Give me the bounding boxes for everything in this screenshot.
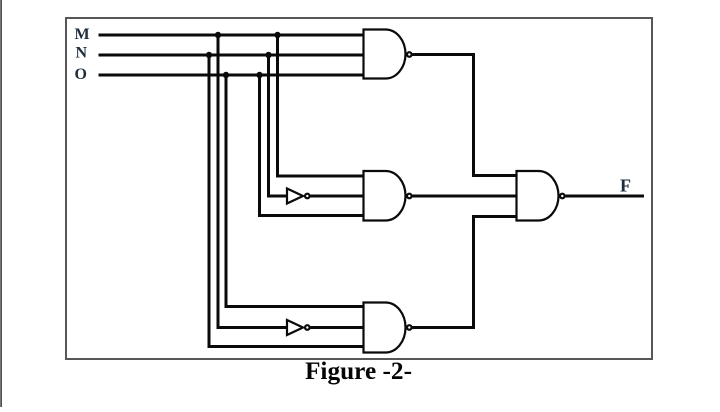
wire M to U2 top input bbox=[278, 35, 364, 176]
svg-text:Figure -2-: Figure -2- bbox=[305, 357, 412, 385]
inverter U6 bubble bbox=[305, 325, 310, 330]
inverter U5 bubble bbox=[305, 194, 310, 199]
wire N to U3 bottom input bbox=[209, 55, 364, 347]
wire O to U3 top input bbox=[226, 75, 364, 307]
inverter U6 triangle bbox=[287, 320, 303, 335]
wire U4 output to F bbox=[566, 195, 645, 198]
wire M rail bbox=[99, 34, 364, 37]
wire U2 output to U4 middle input bbox=[413, 195, 517, 198]
svg-text:M: M bbox=[75, 26, 90, 43]
node O-A junction bbox=[223, 72, 229, 78]
wire M to inverter U6 input bbox=[218, 35, 288, 328]
schematic frame bbox=[66, 18, 652, 359]
inverter U5 triangle bbox=[287, 189, 303, 204]
nand gate U4 bubble bbox=[560, 194, 565, 199]
svg-text:O: O bbox=[75, 66, 87, 83]
wire O rail bbox=[99, 74, 364, 77]
node O-B junction bbox=[256, 72, 262, 78]
nand gate U2 bubble bbox=[407, 194, 412, 199]
wire N rail bbox=[99, 54, 364, 57]
left page rule bbox=[0, 0, 2, 407]
wire U1 output to U4 top input bbox=[413, 55, 517, 176]
nand gate U4 body bbox=[517, 171, 559, 221]
nand gate U2 body bbox=[364, 171, 406, 221]
wire U3 output to U4 bottom input bbox=[413, 217, 517, 328]
wire inverter U5 output to U2 bbox=[311, 195, 364, 198]
nand gate U1 body bbox=[364, 30, 406, 79]
nand gate U3 body bbox=[364, 303, 406, 353]
wire O to U2 bottom input bbox=[260, 75, 364, 216]
svg-text:N: N bbox=[76, 45, 88, 62]
node M-A junction bbox=[215, 32, 221, 38]
svg-text:F: F bbox=[620, 176, 631, 196]
nand gate U3 bubble bbox=[407, 325, 412, 330]
nand gate U1 bubble bbox=[407, 52, 412, 57]
wire inverter U6 output to U3 bbox=[311, 326, 364, 329]
node M-B junction bbox=[274, 32, 280, 38]
wire N to inverter U5 input bbox=[269, 55, 289, 196]
node N-B junction bbox=[265, 52, 271, 58]
node N-A junction bbox=[206, 52, 212, 58]
